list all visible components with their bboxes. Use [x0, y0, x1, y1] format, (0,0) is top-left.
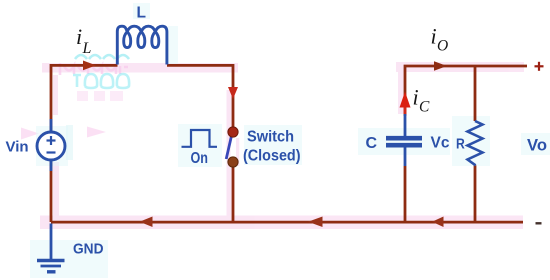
svg-text:GND: GND	[73, 241, 104, 258]
svg-text:L: L	[82, 40, 92, 57]
svg-text:Vo: Vo	[527, 137, 547, 155]
svg-text:C: C	[366, 135, 378, 152]
svg-text:(Closed): (Closed)	[243, 148, 301, 165]
svg-text:i: i	[413, 85, 419, 110]
svg-text:Vin: Vin	[6, 139, 29, 156]
svg-text:Switch: Switch	[247, 129, 294, 146]
svg-text:R: R	[456, 136, 465, 153]
svg-text:i: i	[76, 24, 82, 49]
svg-text:Vc: Vc	[431, 135, 450, 152]
svg-text:C: C	[419, 99, 430, 116]
svg-text:O: O	[437, 38, 448, 55]
svg-text:L: L	[137, 5, 146, 22]
svg-text:On: On	[191, 150, 209, 167]
svg-text:i: i	[431, 24, 437, 49]
